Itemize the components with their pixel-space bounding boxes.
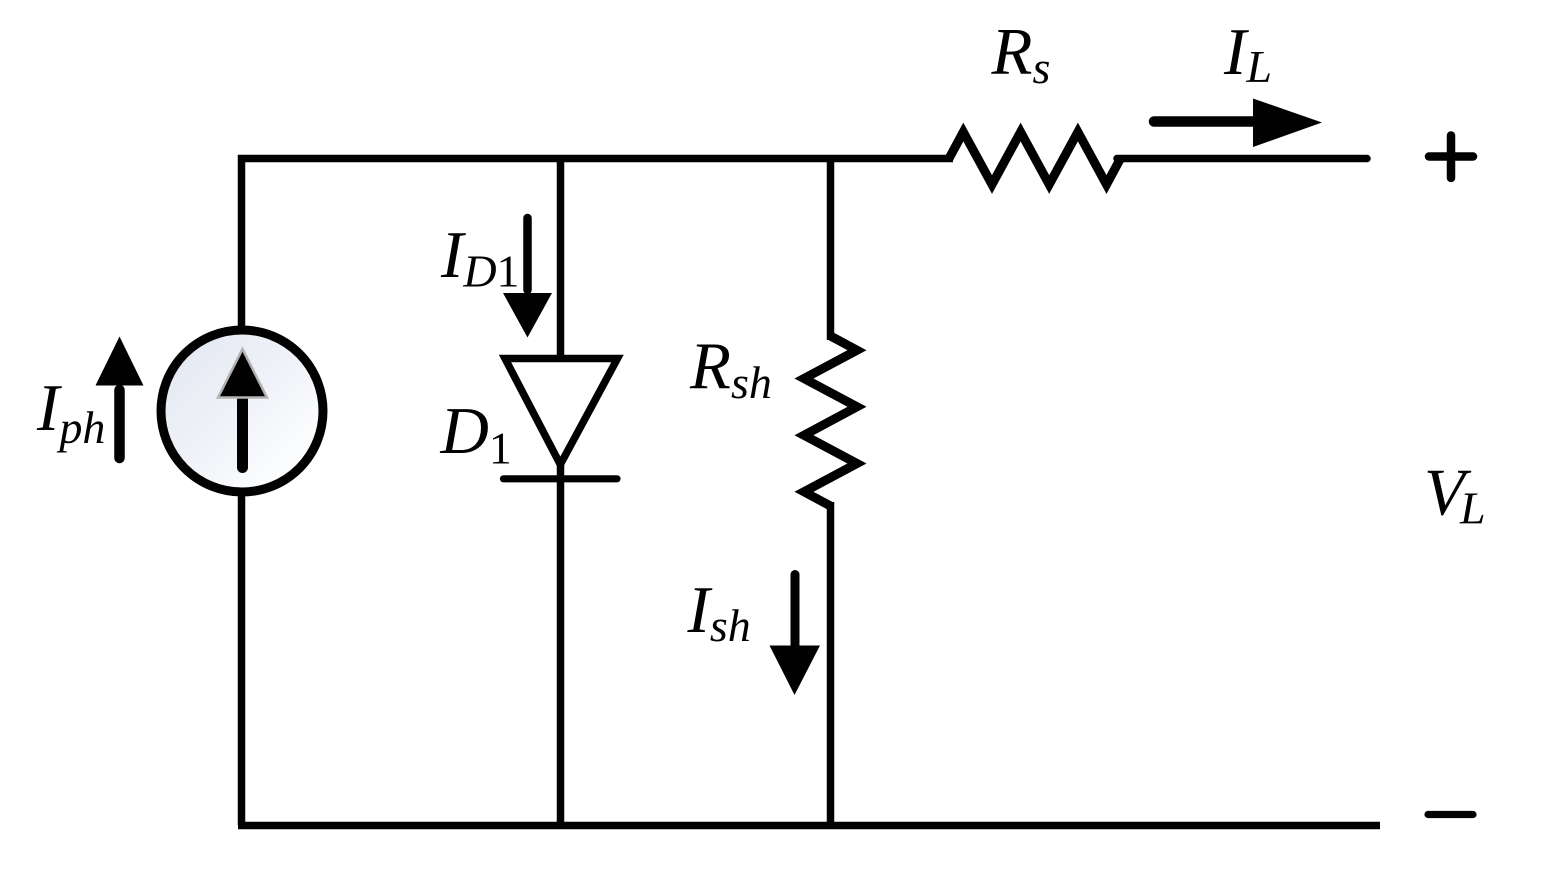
wire: shunt branch lower (Rsh to bottom bus) — [827, 502, 835, 825]
svg-text:Iph: Iph — [36, 371, 105, 453]
wire: left branch upper (top bus to current source) — [238, 155, 246, 334]
wire: left branch lower (current source to bottom bus) — [238, 490, 246, 825]
terminal minus sign — [1428, 811, 1473, 818]
svg-text:VL: VL — [1424, 456, 1486, 534]
svg-text:ID1: ID1 — [440, 218, 520, 297]
arrow ID1 (diode current, downward) — [503, 218, 552, 338]
wire: bottom bus — [238, 822, 1380, 830]
wire: top bus left segment (node A to Rs) — [238, 155, 953, 163]
arrow Ish (shunt current, downward) — [770, 575, 821, 696]
arrow Iph (current direction, outside source) — [96, 337, 144, 459]
resistor Rsh zigzag — [804, 336, 857, 506]
svg-text:D1: D1 — [440, 394, 512, 474]
svg-text:Rs: Rs — [991, 15, 1051, 94]
wire: diode branch upper (top bus to D1 anode) — [557, 155, 565, 362]
svg-text:Ish: Ish — [687, 573, 751, 651]
svg-text:Rsh: Rsh — [689, 329, 772, 408]
wire: top bus right segment (Rs to + terminal) — [1117, 155, 1367, 163]
wire: shunt branch upper (top bus to Rsh) — [827, 155, 835, 340]
diode D1 (triangle + cathode bar) — [504, 359, 618, 479]
current source Iph (circle with up arrow) — [161, 330, 323, 492]
resistor Rs zigzag — [949, 132, 1121, 185]
terminal plus sign — [1429, 136, 1473, 179]
wire: diode branch lower (D1 cathode to bottom bus) — [557, 460, 565, 825]
arrow IL (load current, rightward) — [1154, 99, 1322, 148]
svg-text:IL: IL — [1223, 15, 1272, 92]
